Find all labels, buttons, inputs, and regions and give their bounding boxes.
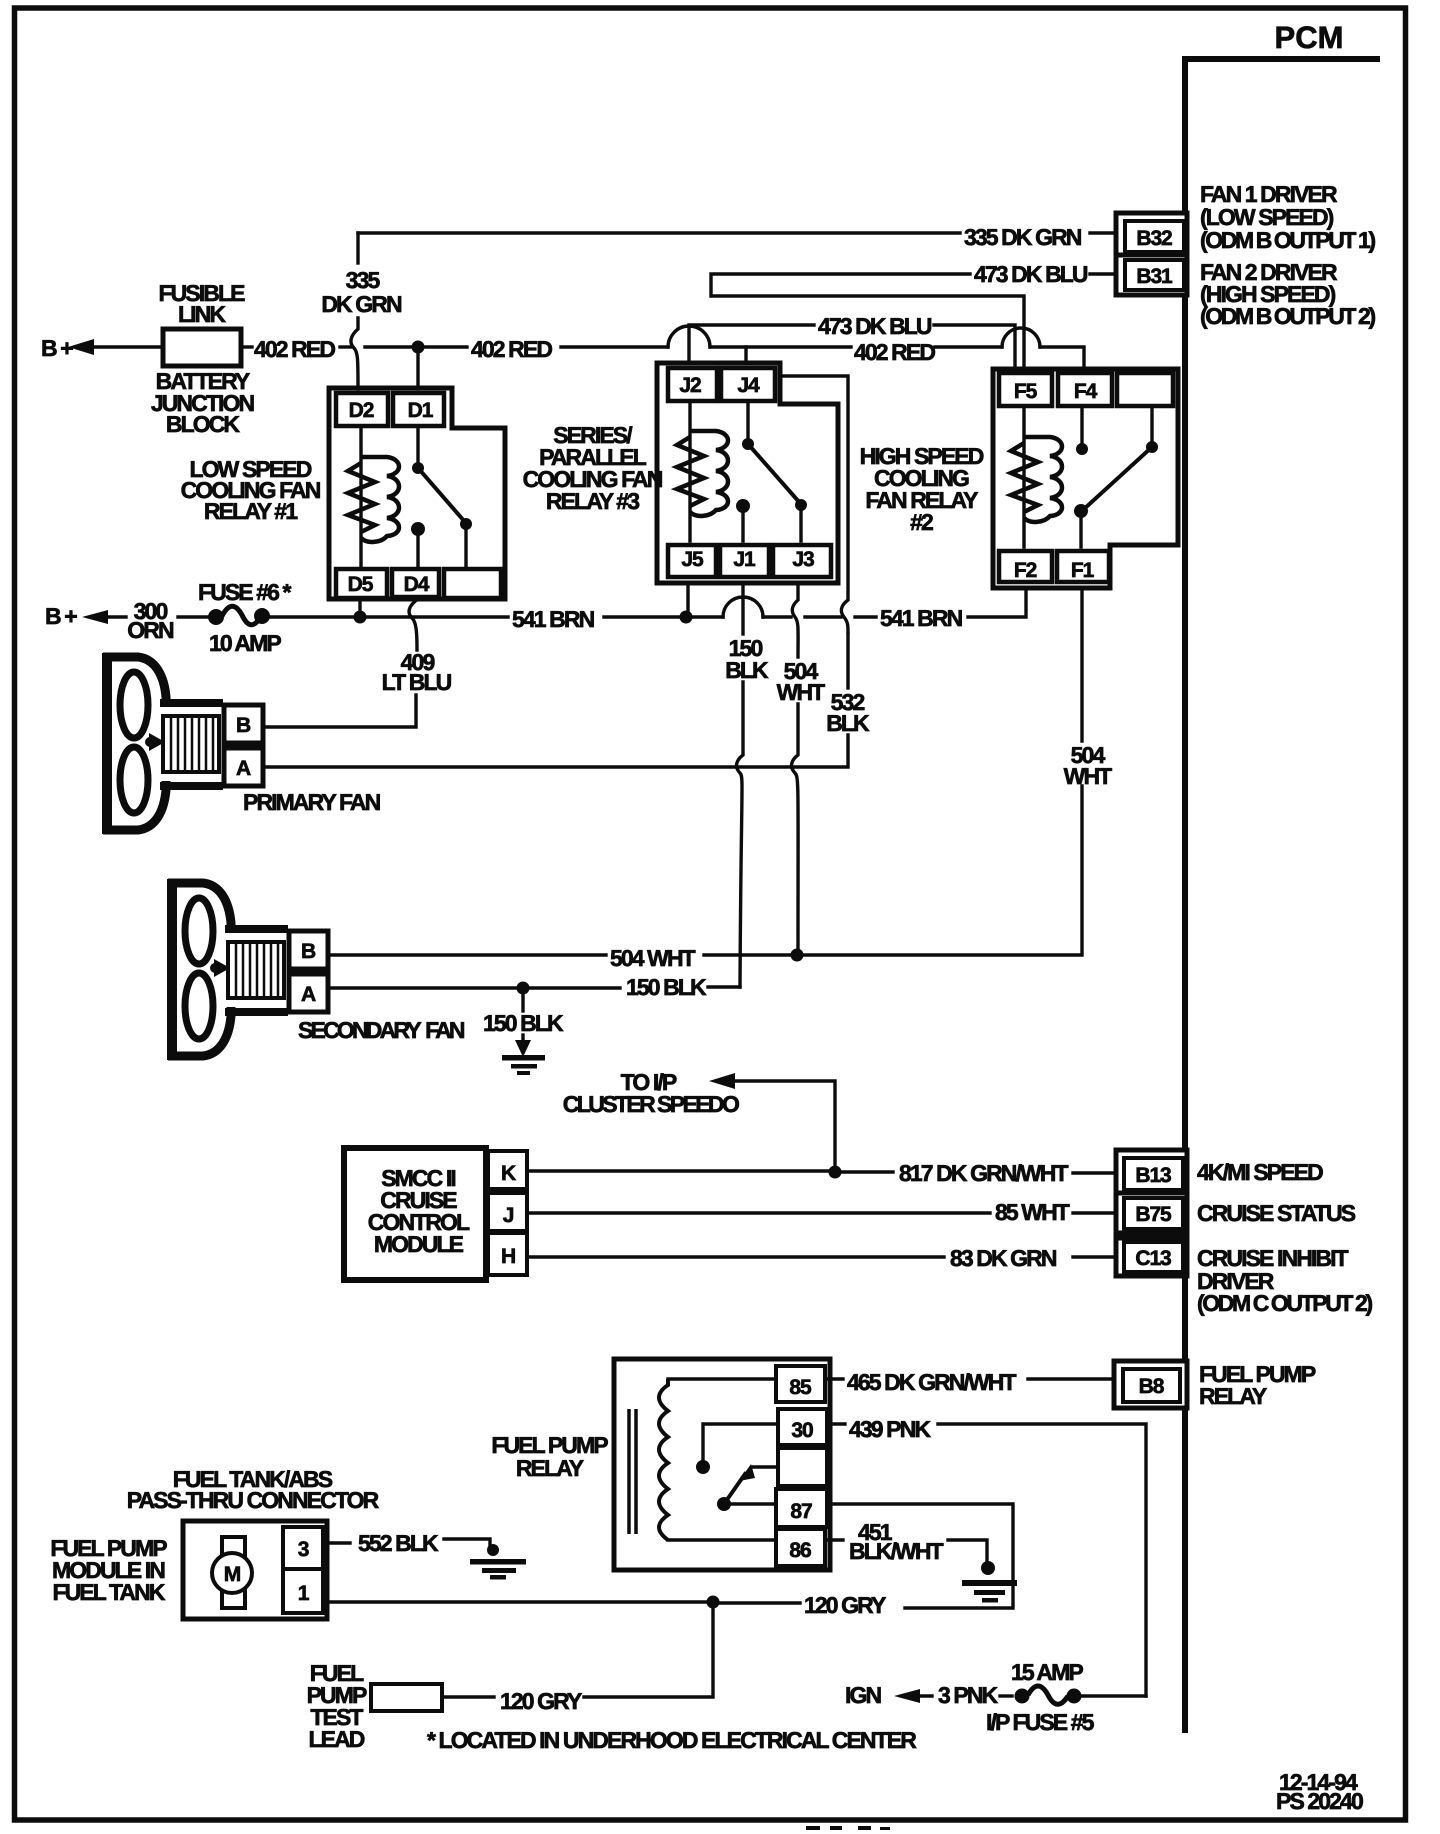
- wire 817 DK GRN/WHT: [527, 1160, 1116, 1186]
- svg-text:RELAY: RELAY: [516, 1455, 584, 1481]
- svg-text:402 RED: 402 RED: [254, 336, 335, 362]
- svg-text:IGN: IGN: [845, 1682, 881, 1708]
- connector B13: [1116, 1150, 1187, 1193]
- wire 451 BLK/WHT: [825, 1519, 987, 1564]
- svg-text:J4: J4: [737, 374, 760, 397]
- drawing date and number: [1276, 1769, 1363, 1814]
- svg-text:J5: J5: [681, 548, 704, 571]
- svg-text:85: 85: [789, 1376, 812, 1399]
- svg-text:3: 3: [298, 1538, 309, 1561]
- connector B75: [1116, 1193, 1187, 1233]
- svg-text:15 AMP: 15 AMP: [1011, 1659, 1083, 1685]
- svg-text:BLK/WHT: BLK/WHT: [849, 1538, 944, 1564]
- svg-text:439 PNK: 439 PNK: [849, 1416, 931, 1442]
- wire 473 DK BLU to J2: [689, 313, 1015, 369]
- svg-text:RELAY: RELAY: [1199, 1383, 1267, 1409]
- fuel pump module label: [50, 1535, 167, 1605]
- svg-text:817 DK GRN/WHT: 817 DK GRN/WHT: [899, 1160, 1068, 1186]
- wire 402 RED label mid: [471, 336, 552, 362]
- pin 30: [778, 1409, 827, 1445]
- PCM label: [1275, 20, 1344, 55]
- wire 504 WHT from J3: [777, 583, 826, 949]
- svg-text:83 DK GRN: 83 DK GRN: [950, 1245, 1057, 1271]
- pin blank: [778, 1448, 827, 1486]
- svg-text:PASS-THRU CONNECTOR: PASS-THRU CONNECTOR: [127, 1487, 380, 1513]
- pin F1: [1071, 559, 1095, 582]
- svg-text:D1: D1: [408, 399, 434, 422]
- wire 504 WHT secondary fan B: [328, 588, 1112, 971]
- svg-text:J: J: [503, 1204, 514, 1227]
- wire 402 RED label left: [254, 336, 335, 362]
- primary fan: [103, 653, 381, 834]
- fuel pump module box: [183, 1521, 327, 1619]
- svg-text:(ODM B OUTPUT 1): (ODM B OUTPUT 1): [1200, 227, 1375, 253]
- wire 402 RED segments: [241, 326, 1084, 369]
- relay K2 label: [860, 443, 984, 535]
- svg-text:D5: D5: [348, 573, 374, 596]
- svg-text:1: 1: [298, 1582, 310, 1605]
- pin F2: [1014, 559, 1037, 582]
- svg-text:B31: B31: [1136, 265, 1173, 288]
- node junction dot D1/402: [412, 341, 425, 390]
- svg-text:#2: #2: [910, 509, 933, 535]
- svg-text:B +: B +: [41, 335, 73, 361]
- relay K2 switch: [1074, 409, 1158, 547]
- wire 465 DK GRN/WHT: [825, 1369, 1114, 1395]
- pin J1: [733, 548, 756, 571]
- wire 120 GRY from pin 1: [323, 1596, 720, 1698]
- svg-text:DK GRN: DK GRN: [321, 291, 402, 317]
- wire 300 ORN label: [127, 598, 174, 643]
- svg-text:WHT: WHT: [777, 679, 826, 705]
- relay K1 label: [181, 456, 321, 524]
- svg-text:PS 20240: PS 20240: [1276, 1788, 1363, 1814]
- svg-text:150 BLK: 150 BLK: [626, 974, 707, 1000]
- relay K1 switch: [411, 428, 472, 566]
- svg-text:504 WHT: 504 WHT: [610, 945, 696, 971]
- connector B8: [1114, 1361, 1187, 1408]
- wire 552 BLK: [323, 1530, 490, 1556]
- fuel pump relay switch: [696, 1424, 778, 1511]
- svg-text:LINK: LINK: [178, 301, 226, 327]
- pin J2: [679, 374, 701, 397]
- wire 335 DK GRN vertical with crossover: [321, 233, 402, 389]
- svg-text:H: H: [501, 1245, 515, 1268]
- pin D2: [349, 399, 374, 422]
- wire 85 WHT: [527, 1199, 1116, 1225]
- pin H box: [488, 1233, 527, 1275]
- wire 473 DK BLU from B31: [711, 261, 1116, 369]
- ground G451: [962, 1561, 1017, 1603]
- svg-text:335: 335: [346, 267, 381, 293]
- svg-text:LT BLU: LT BLU: [382, 669, 452, 695]
- svg-text:K: K: [501, 1162, 516, 1185]
- svg-text:D4: D4: [404, 573, 430, 596]
- battery junction block label: [151, 368, 255, 437]
- fuse #6 10 amp: [178, 579, 354, 656]
- node B+ battery feed bottom: [45, 603, 126, 629]
- wire 541 BRN segments: [366, 583, 1026, 632]
- svg-text:WHT: WHT: [1064, 763, 1113, 789]
- cut-off text marks bottom: [806, 1826, 890, 1830]
- svg-text:C13: C13: [1135, 1247, 1171, 1270]
- wire 402 RED tee to J4: [744, 347, 747, 363]
- svg-text:J2: J2: [679, 374, 701, 397]
- wire 409 LT BLU from D4: [263, 599, 452, 727]
- svg-text:M: M: [224, 1563, 241, 1586]
- svg-text:F5: F5: [1014, 380, 1038, 403]
- PCM module outline: [1185, 59, 1377, 1730]
- pin 87: [776, 1489, 827, 1527]
- svg-text:LEAD: LEAD: [308, 1726, 364, 1752]
- wire 335 DK GRN horizontal to B32: [358, 224, 1116, 250]
- connector B31: [1116, 255, 1187, 295]
- pin D4: [404, 573, 430, 596]
- svg-text:PRIMARY FAN: PRIMARY FAN: [243, 789, 381, 815]
- svg-text:CRUISE STATUS: CRUISE STATUS: [1197, 1200, 1356, 1226]
- svg-text:30: 30: [791, 1419, 813, 1442]
- svg-text:J1: J1: [733, 548, 756, 571]
- note located in underhood electrical center: [427, 1727, 917, 1753]
- pin 86: [776, 1529, 825, 1566]
- svg-text:3 PNK: 3 PNK: [938, 1682, 999, 1708]
- pin D5: [348, 573, 374, 596]
- wire 150 BLK secondary fan A: [328, 982, 530, 995]
- pin D1: [408, 399, 434, 422]
- ground G150: [483, 992, 564, 1075]
- svg-text:B32: B32: [1136, 227, 1172, 250]
- pin 3: [283, 1527, 323, 1569]
- svg-text:FUSE #6 *: FUSE #6 *: [198, 579, 292, 605]
- node IGN feed: [845, 1682, 1012, 1708]
- svg-text:RELAY #1: RELAY #1: [204, 498, 298, 524]
- pin B31 label FAN 2 DRIVER: [1200, 259, 1375, 329]
- svg-text:B +: B +: [45, 603, 77, 629]
- relay K3 label: [523, 422, 663, 514]
- svg-text:B8: B8: [1139, 1375, 1165, 1398]
- secondary fan: [168, 879, 465, 1060]
- fuel pump test lead: [307, 1660, 582, 1752]
- wire 402 RED label right: [854, 339, 935, 365]
- svg-text:F1: F1: [1071, 559, 1095, 582]
- pin C13 label CRUISE INHIBIT DRIVER: [1197, 1245, 1372, 1316]
- pin B32 label FAN 1 DRIVER: [1200, 181, 1375, 253]
- svg-text:SECONDARY FAN: SECONDARY FAN: [298, 1017, 465, 1043]
- svg-text:473 DK BLU: 473 DK BLU: [974, 261, 1088, 287]
- svg-text:MODULE: MODULE: [374, 1231, 464, 1257]
- pin J box: [488, 1193, 527, 1231]
- relay K3 series/parallel cooling fan relay outline: [657, 363, 838, 583]
- pin F4: [1074, 380, 1098, 403]
- svg-text:4K/MI SPEED: 4K/MI SPEED: [1197, 1159, 1323, 1185]
- relay K1 low speed cooling fan relay outline: [329, 388, 505, 599]
- svg-text:402 RED: 402 RED: [854, 339, 935, 365]
- svg-text:335 DK GRN: 335 DK GRN: [964, 224, 1082, 250]
- fuel pump relay core: [629, 1409, 636, 1534]
- svg-text:D2: D2: [349, 399, 374, 422]
- fuse I/P #5 15 amp: [986, 1659, 1146, 1735]
- pin 1: [283, 1569, 323, 1613]
- svg-text:(ODM C OUTPUT 2): (ODM C OUTPUT 2): [1197, 1290, 1372, 1316]
- SMCC II cruise control module: [344, 1148, 486, 1280]
- svg-text:* LOCATED IN UNDERHOOD ELECTRI: * LOCATED IN UNDERHOOD ELECTRICAL CENTER: [427, 1727, 917, 1753]
- wire 83 DK GRN: [527, 1245, 1116, 1271]
- svg-text:87: 87: [790, 1500, 812, 1523]
- pin K box: [488, 1151, 527, 1189]
- relay K2 high speed cooling fan relay outline: [993, 369, 1178, 588]
- wire 439 PNK: [827, 1416, 1146, 1696]
- svg-text:86: 86: [789, 1539, 811, 1562]
- svg-text:402 RED: 402 RED: [471, 336, 552, 362]
- svg-text:J3: J3: [792, 548, 814, 571]
- wire 150 BLK from J1: [529, 583, 769, 1000]
- relay K3 coil: [677, 404, 728, 541]
- pin F5: [1014, 380, 1038, 403]
- svg-text:CLUSTER SPEEDO: CLUSTER SPEEDO: [563, 1091, 739, 1117]
- relay K2 coil: [1011, 409, 1062, 547]
- svg-text:473 DK BLU: 473 DK BLU: [818, 313, 932, 339]
- svg-text:B75: B75: [1135, 1203, 1172, 1226]
- connector C13: [1116, 1238, 1187, 1276]
- svg-text:BLK: BLK: [826, 710, 870, 736]
- svg-text:(ODM B OUTPUT 2): (ODM B OUTPUT 2): [1200, 303, 1375, 329]
- pin J3: [792, 548, 814, 571]
- fusible link: [158, 280, 245, 366]
- fuel pump relay box: [491, 1359, 830, 1570]
- svg-text:ORN: ORN: [127, 617, 174, 643]
- wire to I/P cluster speedo with arrow: [563, 1069, 842, 1179]
- wire 120 GRY to pin 87: [719, 1504, 1013, 1618]
- svg-text:541 BRN: 541 BRN: [880, 605, 963, 631]
- relay K3 switch: [736, 404, 807, 541]
- svg-text:150 BLK: 150 BLK: [483, 1010, 564, 1036]
- svg-text:120 GRY: 120 GRY: [804, 1592, 886, 1618]
- svg-text:I/P FUSE #5: I/P FUSE #5: [986, 1709, 1095, 1735]
- svg-text:F4: F4: [1074, 380, 1098, 403]
- svg-text:RELAY #3: RELAY #3: [546, 488, 639, 514]
- node B+ battery feed top: [41, 335, 163, 361]
- svg-text:541 BRN: 541 BRN: [512, 606, 595, 632]
- svg-text:FUEL TANK: FUEL TANK: [52, 1579, 165, 1605]
- svg-text:552 BLK: 552 BLK: [358, 1530, 439, 1556]
- pin B13 label 4K/MI SPEED: [1197, 1159, 1323, 1185]
- relay K1 coil: [348, 428, 399, 566]
- svg-text:PCM: PCM: [1275, 20, 1344, 55]
- fuel pump relay coil: [659, 1379, 776, 1540]
- node junction D5/541: [354, 599, 367, 624]
- pin 85: [776, 1366, 825, 1402]
- pin J4: [737, 374, 760, 397]
- svg-text:465 DK GRN/WHT: 465 DK GRN/WHT: [847, 1369, 1016, 1395]
- svg-text:BLOCK: BLOCK: [166, 411, 241, 437]
- svg-text:120 GRY: 120 GRY: [500, 1688, 582, 1714]
- connector B32: [1116, 213, 1187, 255]
- svg-text:85 WHT: 85 WHT: [995, 1199, 1070, 1225]
- fuel tank/ABS pass-thru connector label: [127, 1466, 380, 1513]
- pin B8 label FUEL PUMP RELAY: [1199, 1361, 1316, 1409]
- svg-text:10 AMP: 10 AMP: [209, 630, 281, 656]
- svg-text:BLK: BLK: [725, 657, 769, 683]
- svg-text:F2: F2: [1014, 559, 1037, 582]
- pin B75 label CRUISE STATUS: [1197, 1200, 1356, 1226]
- pin J5: [681, 548, 704, 571]
- ground G552: [470, 1544, 526, 1580]
- svg-text:B13: B13: [1135, 1164, 1171, 1187]
- wire 532 BLK from J4: [263, 376, 870, 767]
